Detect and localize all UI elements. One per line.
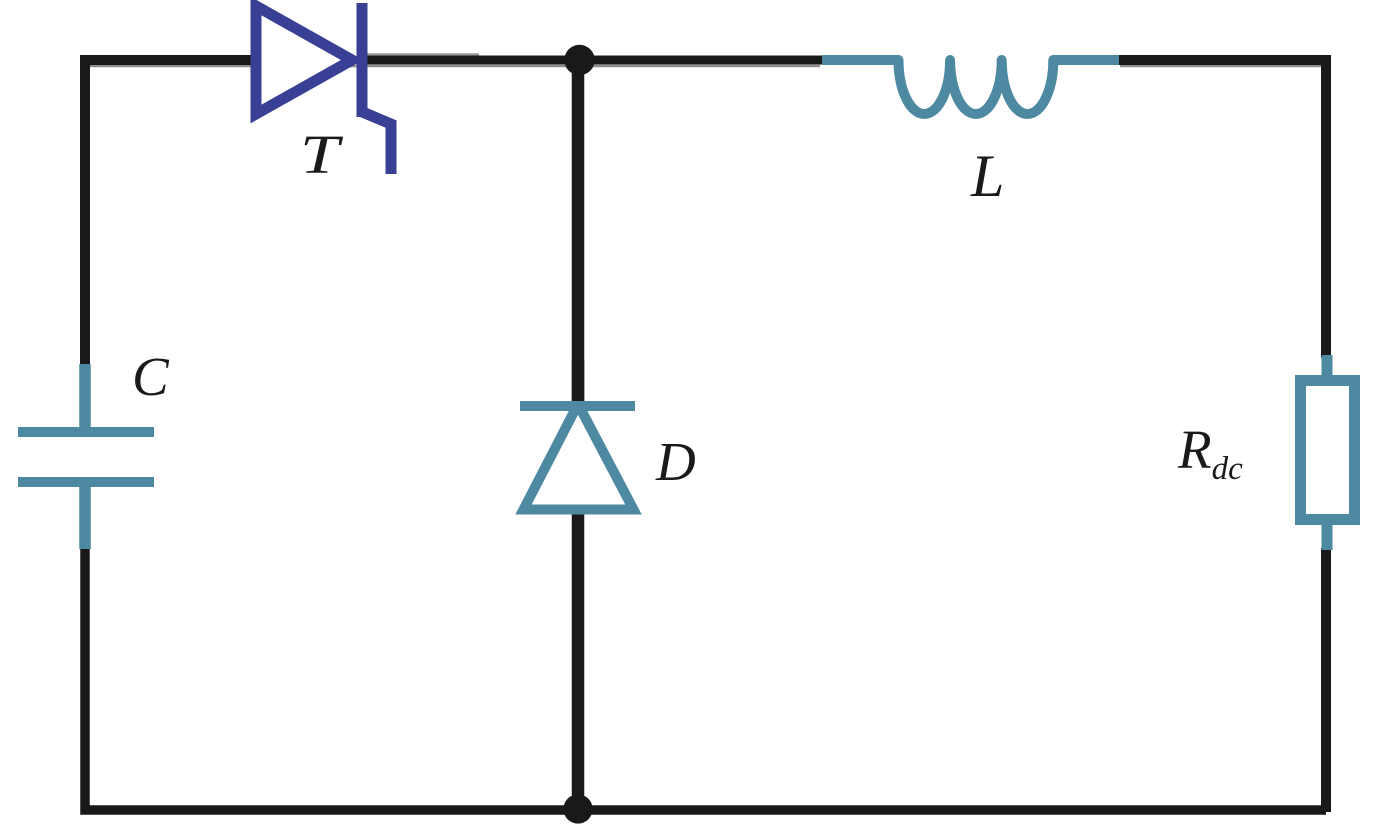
diode D: triangle (anode, pointing up) (524, 404, 634, 510)
capacitor C: bottom plate (18, 477, 154, 487)
wire: middle vertical branch (diode branch) (572, 60, 585, 810)
wire: patch above diode bar (572, 360, 585, 401)
svg-text:D: D (655, 431, 696, 492)
resistor Rdc: box (1301, 381, 1355, 520)
resistor Rdc: bottom lead (1322, 520, 1333, 550)
inductor L: three loops (822, 60, 1119, 114)
node: bottom junction dot (563, 794, 592, 823)
wire gray underline artifact (top-right wire) (1120, 65, 1322, 68)
wire: inductor right lead to top-right corner down to resistor top (1115, 60, 1326, 358)
wire gray streak above wire right of thyristor cathode (362, 53, 479, 56)
wire: resistor bottom to bottom-right corner (1321, 548, 1331, 812)
thyristor T: triangle (anode) (256, 6, 352, 114)
thyristor T: cathode bar (357, 3, 368, 117)
svg-text:C: C (132, 346, 170, 407)
wire: thyristor cathode to top junction to inductor left lead (362, 56, 830, 65)
capacitor C: top plate (18, 427, 154, 437)
capacitor C: top lead (79, 364, 91, 433)
svg-text:L: L (970, 143, 1004, 209)
wire: bottom junction to bottom-right corner (578, 805, 1326, 815)
thyristor T: gate lead (360, 111, 391, 174)
diode D: cathode bar (520, 401, 635, 411)
resistor Rdc: top lead (1322, 355, 1333, 380)
node: top junction dot (564, 45, 594, 75)
capacitor C: bottom lead (79, 481, 91, 549)
wire: top-left horizontal + left vertical (node from thyristor anode to capacitor) (85, 60, 258, 367)
svg-text:T: T (300, 124, 343, 185)
wire: capacitor bottom to bottom-left corner to bottom junction (85, 546, 578, 810)
wire gray underline artifact (top wire) (88, 65, 820, 68)
